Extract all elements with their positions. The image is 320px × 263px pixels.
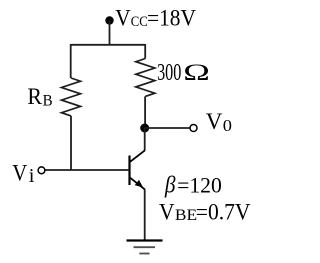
svg-text:B: B	[43, 92, 53, 109]
wire: stub from VCC dot down to top rail	[109, 21, 111, 45]
wire: 300 ohm bottom lead down to output node	[144, 96, 146, 128]
svg-text:=0.7V: =0.7V	[196, 199, 251, 224]
transistor Q1 base bar	[128, 156, 130, 186]
terminal Vi (open circle)	[38, 167, 45, 174]
svg-text:=18V: =18V	[147, 5, 196, 30]
svg-text:300: 300	[157, 59, 181, 86]
wire: base wire from Vi terminal to base bar	[45, 169, 130, 171]
svg-text:V: V	[206, 109, 223, 134]
wire: emitter vertical down to ground	[144, 189, 146, 240]
resistor 300 ohm (zigzag)	[136, 59, 155, 97]
wire: output wire from node to V0 terminal	[145, 127, 191, 129]
svg-text:i: i	[29, 165, 35, 187]
resistor RB (zigzag)	[62, 78, 81, 116]
svg-text:V: V	[12, 160, 27, 185]
terminal V0 (open circle)	[190, 125, 197, 132]
wire: left vertical from rail to RB top	[70, 44, 72, 78]
svg-text:=120: =120	[177, 172, 222, 197]
node: collector/output junction dot	[140, 124, 149, 133]
svg-text:R: R	[27, 84, 42, 109]
svg-text:BE: BE	[175, 207, 197, 224]
svg-text:CC: CC	[131, 14, 148, 30]
wire: collector vertical from node down to transistor	[144, 128, 146, 151]
svg-text:Ω: Ω	[183, 60, 210, 85]
ground	[127, 241, 163, 254]
transistor Q1 collector diagonal	[130, 150, 145, 162]
wire: top horizontal rail	[71, 44, 146, 46]
svg-text:0: 0	[223, 116, 232, 135]
transistor Q1 emitter diagonal	[130, 177, 145, 189]
wire: RB bottom lead down to base wire	[70, 116, 72, 170]
transistor Q1 (NPN)	[130, 150, 145, 189]
svg-text:V: V	[115, 5, 131, 30]
wire: right vertical from rail to 300 ohm top	[144, 44, 146, 59]
svg-text:β: β	[164, 173, 176, 199]
power node VCC (junction dot)	[105, 16, 113, 24]
svg-text:V: V	[159, 199, 175, 224]
transistor Q1 emitter arrowhead	[135, 180, 144, 188]
